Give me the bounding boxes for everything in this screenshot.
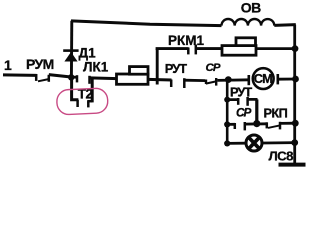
wire main line ЛК1 to resistor	[90, 76, 118, 80]
motor СМ brush right	[276, 74, 279, 84]
svg-text:РУТ: РУТ	[165, 61, 187, 76]
resistor (main line, with tap)	[117, 67, 149, 85]
motor СМ brush left	[248, 75, 251, 85]
wire riser to РКМ1 line	[156, 49, 159, 85]
inductor ОВ coil	[222, 19, 275, 26]
wire main line СР to СМ motor	[217, 78, 249, 81]
contact РУТ (main line)	[171, 78, 184, 88]
motor СМ	[253, 68, 274, 89]
wire lamp row	[227, 141, 296, 145]
wire main line left segment from terminal 1	[3, 73, 37, 77]
svg-text:СР: СР	[206, 62, 221, 74]
junction dot left rail lamp row	[224, 140, 230, 146]
svg-text:РКП: РКП	[264, 106, 288, 121]
junction dot РКМ1 row / right rail	[292, 45, 299, 52]
junction dot left rail СР/РКП row	[224, 121, 230, 127]
node A junction (diode branch / T2 branch)	[68, 74, 74, 80]
junction dot right rail lamp row	[291, 139, 298, 146]
wire СР/РКП row	[227, 123, 296, 124]
node terminal 1 label	[4, 57, 12, 73]
svg-text:СР: СР	[236, 106, 252, 120]
junction dot lower branch on main line	[225, 76, 232, 83]
wire top rail right of coil	[274, 23, 296, 27]
wire right rail	[293, 25, 296, 164]
highlight ring around contact Т2	[56, 88, 108, 115]
svg-text:1: 1	[4, 57, 12, 73]
wire СМ to right rail	[278, 78, 296, 81]
junction dot main line / right rail	[292, 76, 299, 83]
wire main line node A to ЛК1	[71, 76, 78, 79]
contact СР (lower row)	[235, 122, 245, 130]
wire РКМ1 row left	[156, 47, 189, 50]
terminal bar bottom right	[279, 163, 306, 167]
svg-text:СМ: СМ	[254, 71, 272, 86]
svg-text:РУМ: РУМ	[26, 56, 54, 72]
contact РУТ (lower row)	[238, 97, 247, 106]
svg-text:РУТ: РУТ	[230, 85, 252, 100]
wire lower branch left rail	[226, 80, 229, 144]
junction dot mid СР/РКП row	[253, 120, 260, 127]
junction dot right rail СР/РКП row	[292, 120, 299, 127]
wire РУТ row (lower)	[227, 98, 257, 101]
svg-text:ЛК1: ЛК1	[83, 60, 109, 75]
resistor (РКМ1 row, with tap)	[222, 38, 256, 55]
svg-text:РКМ1: РКМ1	[168, 33, 204, 48]
diode Д1	[63, 51, 78, 62]
wire main line РУМ to node A	[49, 75, 71, 77]
wire resistor to right rail	[256, 47, 296, 50]
wire РКМ1 row to resistor	[196, 47, 223, 50]
junction dot left rail РУТ row	[224, 97, 230, 103]
wire main line РУТ to СР	[184, 79, 205, 82]
contact РКМ1	[188, 45, 196, 55]
wire РУТ row drop to СР/РКП row	[255, 99, 258, 124]
contact РУМ	[36, 74, 49, 82]
svg-text:ОВ: ОВ	[241, 0, 261, 16]
wire top rail	[71, 21, 222, 26]
wire resistor to РУТ contact	[148, 78, 172, 82]
contact СР (main line)	[206, 78, 216, 86]
lamp ЛС8	[246, 135, 262, 151]
svg-text:Д1: Д1	[79, 46, 97, 61]
contact ЛК1	[77, 75, 90, 84]
wire diode branch vertical	[70, 21, 73, 78]
contact Т2 (parallel branch below, highlighted)	[72, 78, 93, 108]
contact РКП	[267, 122, 280, 130]
svg-text:ЛС8: ЛС8	[269, 149, 294, 164]
